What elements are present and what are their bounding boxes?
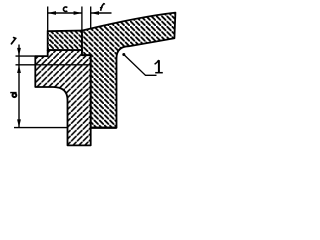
dimension l extension top <box>16 55 36 57</box>
bracket part 2 (plate + arm + leg + foot) <box>35 50 90 145</box>
arrow l bottom (up) <box>17 65 21 73</box>
label 1 <box>158 60 160 72</box>
label l <box>11 38 15 44</box>
dimension d extension bottom <box>14 127 68 129</box>
arrow f right <box>91 11 99 15</box>
arrow d bottom (down) <box>17 119 21 127</box>
arrow l top (down) <box>17 48 21 56</box>
arrow c left <box>48 11 56 15</box>
label f <box>101 4 104 11</box>
column bottom edge emphasis <box>91 127 117 129</box>
dimension f extension right <box>90 7 92 30</box>
dimension line f tail <box>91 12 112 14</box>
dimension c extension left <box>47 7 49 32</box>
dimension l/d line vertical <box>18 45 20 128</box>
label c <box>63 7 67 12</box>
joint line plate bottom <box>16 64 91 66</box>
label d (rotated) <box>10 92 16 94</box>
dimension c/f shared extension <box>81 7 83 31</box>
arrow c right / f left <box>74 11 82 15</box>
dimension line c <box>48 12 82 14</box>
rim part 1 (column + flange + lip) <box>82 13 175 128</box>
clamp block A <box>48 31 82 50</box>
leader line for 1 <box>122 53 125 56</box>
